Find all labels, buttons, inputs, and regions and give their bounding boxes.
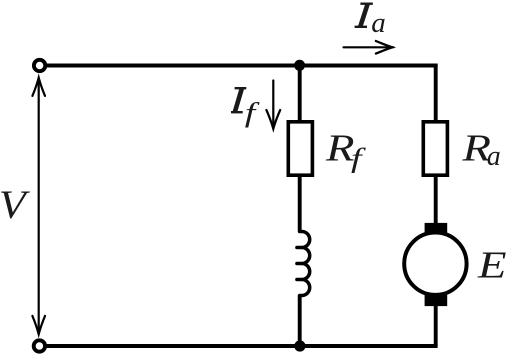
svg-text:E: E [477, 244, 507, 286]
svg-text:a: a [371, 7, 386, 39]
svg-text:a: a [487, 140, 501, 172]
